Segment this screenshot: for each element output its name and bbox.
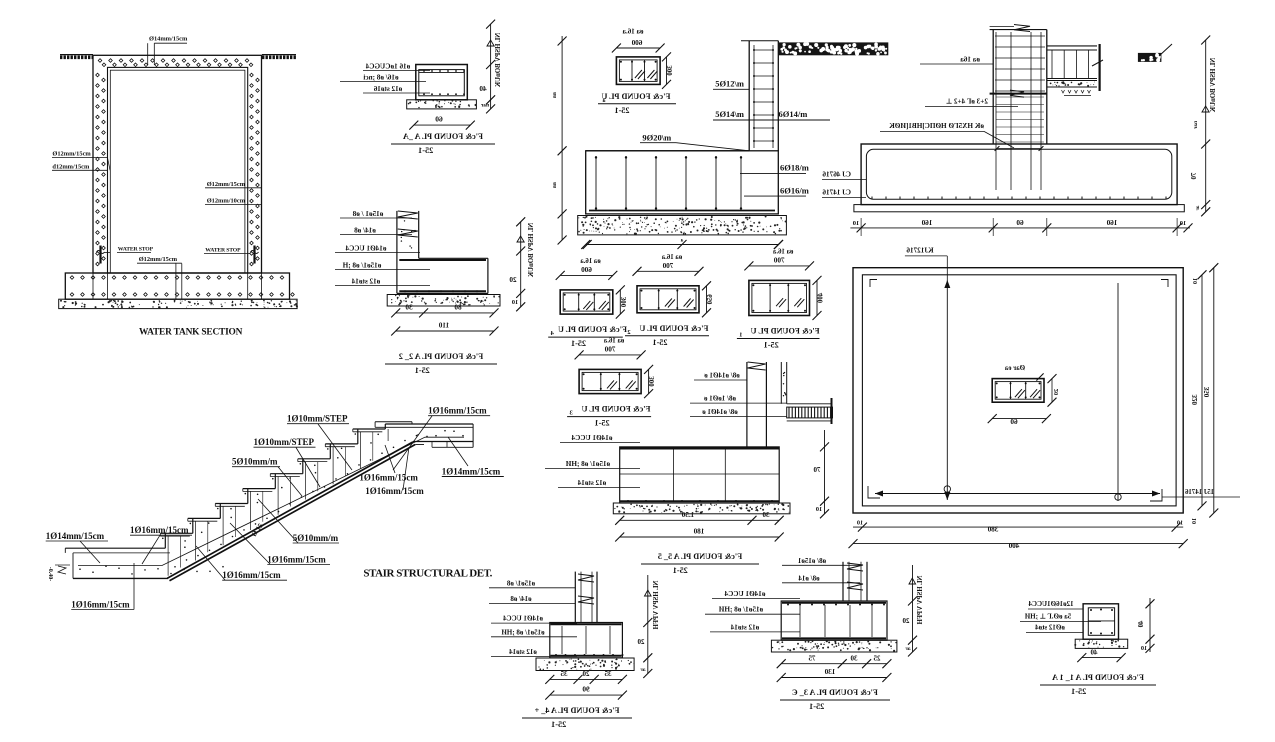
svg-text:20: 20: [637, 638, 645, 646]
svg-text:25-1: 25-1: [418, 146, 433, 155]
svg-text:1Ø16mm/15cm: 1Ø16mm/15cm: [359, 472, 418, 482]
svg-text:Ø12mm/15cm: Ø12mm/15cm: [52, 151, 91, 158]
svg-text:F'c& FOUND PL U: F'c& FOUND PL U: [639, 324, 708, 333]
svg-text:70: 70: [1190, 173, 1198, 181]
svg-text:øØ12 stø4: øØ12 stø4: [1035, 624, 1065, 632]
svg-text:ø15ø1 / ø8: ø15ø1 / ø8: [352, 210, 383, 218]
svg-text:70: 70: [813, 466, 821, 474]
svg-text:øa 16.a: øa 16.a: [580, 258, 601, 265]
svg-text:600: 600: [631, 39, 642, 47]
svg-text:ø15ø1/ ø8 ;HИ: ø15ø1/ ø8 ;HИ: [501, 628, 545, 636]
svg-text:30: 30: [850, 654, 858, 662]
svg-text:380: 380: [987, 526, 998, 534]
svg-text:25-1: 25-1: [614, 106, 629, 115]
svg-text:10: 10: [1179, 220, 1186, 227]
svg-text:NL HSPV BOnUK: NL HSPV BOnUK: [495, 33, 502, 88]
svg-text:a: a: [680, 238, 683, 244]
svg-text:12ø16Ø1UCC4: 12ø16Ø1UCC4: [1028, 600, 1074, 608]
svg-text:WATER TANK SECTION: WATER TANK SECTION: [139, 328, 243, 338]
svg-text:25-1: 25-1: [673, 566, 688, 575]
svg-text:110: 110: [438, 322, 449, 330]
svg-text:20: 20: [509, 276, 517, 284]
svg-text:ar: ar: [905, 646, 911, 652]
svg-text:NL HSPV BOnUK: NL HSPV BOnUK: [1210, 58, 1217, 113]
svg-text:-0.40-: -0.40-: [47, 567, 53, 582]
svg-text:10: 10: [1191, 518, 1198, 524]
svg-text:WATER STOP: WATER STOP: [205, 247, 241, 253]
svg-text:25-1: 25-1: [652, 338, 667, 347]
svg-text:nar: nar: [480, 103, 489, 109]
svg-text:1: 1: [739, 332, 742, 339]
svg-text:øa 16.a: øa 16.a: [622, 28, 644, 36]
svg-text:5Ø10mm/m: 5Ø10mm/m: [232, 457, 278, 467]
svg-text:øa 16.a: øa 16.a: [661, 254, 682, 261]
svg-text:6Ø18/m: 6Ø18/m: [780, 163, 809, 173]
svg-text:F'c& FOUND PL A 3_ Є: F'c& FOUND PL A 3_ Є: [792, 688, 878, 697]
svg-text:ø12 stø14: ø12 stø14: [730, 623, 759, 631]
svg-text:F'c& FOUND PL U: F'c& FOUND PL U: [751, 327, 820, 336]
svg-text:NL HSPV VPFH: NL HSPV VPFH: [917, 576, 924, 626]
svg-text:STAIR STRUCTURAL DET.: STAIR STRUCTURAL DET.: [363, 567, 492, 579]
svg-text:10: 10: [857, 520, 863, 527]
svg-text:2: 2: [627, 329, 630, 336]
svg-text:ø15ø1/ ø8 ;H: ø15ø1/ ø8 ;H: [342, 262, 381, 270]
svg-text:1Ø16mm/15cm: 1Ø16mm/15cm: [130, 525, 189, 535]
svg-text:NL HSPV VPFH: NL HSPV VPFH: [653, 581, 660, 631]
svg-text:60: 60: [1010, 418, 1018, 426]
svg-text:F'c& FOUND PL U: F'c& FOUND PL U: [601, 92, 670, 101]
svg-text:180: 180: [693, 528, 704, 536]
svg-text:ø8/ ø14Ø1 ø: ø8/ ø14Ø1 ø: [704, 372, 740, 380]
svg-text:Ø12mm/15cm: Ø12mm/15cm: [207, 181, 246, 188]
svg-text:ø12 stø14: ø12 stø14: [509, 648, 537, 656]
svg-text:ar: ar: [640, 667, 646, 673]
svg-text:10: 10: [1192, 278, 1199, 284]
svg-text:5a øØ.Γ ⊥ ;HИ: 5a øØ.Γ ⊥ ;HИ: [1024, 613, 1071, 621]
svg-text:75: 75: [808, 654, 816, 662]
svg-text:ø14/ ø8: ø14/ ø8: [510, 595, 532, 603]
svg-text:160: 160: [921, 219, 932, 227]
svg-text:nar: nar: [1193, 121, 1199, 130]
svg-text:ø12 stø16: ø12 stø16: [373, 85, 402, 93]
svg-text:aa: aa: [552, 92, 558, 98]
svg-text:F'c& FOUND PL A 5_ 5: F'c& FOUND PL A 5_ 5: [658, 552, 742, 561]
svg-text:1Ø10mm/STEP: 1Ø10mm/STEP: [254, 437, 315, 447]
svg-text:650: 650: [707, 294, 714, 305]
svg-text:ø16 1øCUGC4: ø16 1øCUGC4: [365, 63, 410, 71]
svg-text:F'c& FOUND PL A _A: F'c& FOUND PL A _A: [403, 132, 483, 141]
svg-text:CJ 46716: CJ 46716: [822, 171, 851, 179]
svg-text:60: 60: [435, 115, 443, 124]
svg-text:Ø14mm/15cm: Ø14mm/15cm: [149, 36, 188, 43]
svg-text:10: 10: [1177, 520, 1183, 527]
svg-text:6Ø14/m: 6Ø14/m: [779, 109, 808, 119]
svg-text:2+3 øΓ 4+2 ⊥: 2+3 øΓ 4+2 ⊥: [946, 98, 988, 106]
svg-text:ø16/ ø8 ;nci: ø16/ ø8 ;nci: [363, 74, 398, 82]
svg-text:6Ø16/m: 6Ø16/m: [780, 185, 809, 195]
svg-text:300: 300: [667, 65, 674, 76]
svg-text:1Ø16mm/15cm: 1Ø16mm/15cm: [267, 555, 326, 565]
svg-text:1Ø14mm/15cm: 1Ø14mm/15cm: [46, 531, 105, 541]
svg-text:10: 10: [512, 299, 518, 306]
svg-text:80: 80: [454, 304, 462, 312]
svg-text:ø8/ ø14: ø8/ ø14: [798, 574, 820, 582]
svg-text:20: 20: [902, 617, 910, 625]
svg-text:Øar ea: Øar ea: [1004, 364, 1025, 372]
svg-text:aa: aa: [552, 182, 558, 188]
svg-text:600: 600: [581, 266, 592, 274]
svg-text:25-1: 25-1: [595, 419, 610, 428]
svg-text:5Ø14\m: 5Ø14\m: [715, 109, 744, 119]
svg-text:1Ø10mm/STEP: 1Ø10mm/STEP: [287, 414, 348, 424]
svg-text:700: 700: [662, 262, 673, 270]
svg-text:10: 10: [816, 506, 822, 513]
svg-text:30: 30: [405, 304, 413, 312]
svg-text:F'c& FOUND PL A 2_ 2: F'c& FOUND PL A 2_ 2: [399, 352, 483, 361]
svg-text:ø12 stø14: ø12 stø14: [577, 479, 606, 487]
svg-text:400: 400: [1008, 542, 1019, 550]
svg-text:25-1: 25-1: [1071, 687, 1086, 696]
svg-text:700: 700: [604, 345, 615, 353]
svg-text:ø14Ø1 UCC4: ø14Ø1 UCC4: [724, 590, 765, 598]
svg-text:NL HSPV BOnUK: NL HSPV BOnUK: [528, 223, 535, 278]
svg-text:9Ø20\m: 9Ø20\m: [642, 133, 671, 143]
svg-text:25-1: 25-1: [551, 720, 566, 729]
svg-text:a: a: [603, 98, 606, 104]
svg-text:ar: ar: [1196, 206, 1201, 212]
svg-text:øa 16.a: øa 16.a: [603, 337, 624, 344]
svg-text:F'c& FOUND PL A 4_ +: F'c& FOUND PL A 4_ +: [534, 706, 619, 715]
svg-text:Ø12mm/15cm: Ø12mm/15cm: [139, 256, 178, 263]
svg-text:60: 60: [1016, 219, 1024, 227]
svg-text:Ø12mm/10cm: Ø12mm/10cm: [207, 198, 246, 205]
svg-text:ø15ø1/ ø8 ;HИ: ø15ø1/ ø8 ;HИ: [718, 606, 763, 614]
svg-text:20: 20: [582, 670, 590, 678]
svg-text:F'c& FOUND PL A 1_ 1 A: F'c& FOUND PL A 1_ 1 A: [1052, 673, 1144, 682]
svg-text:25-1: 25-1: [415, 366, 430, 375]
svg-text:300: 300: [649, 376, 656, 387]
svg-text:øa 16a: øa 16a: [960, 56, 980, 64]
svg-text:CJ 14716: CJ 14716: [822, 189, 851, 197]
svg-text:øa 16.a: øa 16.a: [772, 248, 793, 255]
svg-text:1Ø16mm/15cm: 1Ø16mm/15cm: [222, 570, 281, 580]
svg-text:10: 10: [1141, 645, 1147, 652]
svg-text:ø14Ø1 UCC4: ø14Ø1 UCC4: [345, 245, 386, 253]
svg-text:35: 35: [604, 670, 612, 678]
svg-text:35: 35: [560, 670, 568, 678]
svg-text:1.50: 1.50: [681, 511, 694, 519]
svg-text:40: 40: [1138, 621, 1145, 628]
svg-text:160: 160: [1106, 219, 1117, 227]
svg-text:350: 350: [1203, 387, 1211, 398]
svg-text:320: 320: [1191, 395, 1199, 406]
svg-text:25-1: 25-1: [809, 702, 824, 711]
svg-text:25: 25: [873, 654, 881, 662]
svg-text:30: 30: [762, 511, 770, 519]
svg-text:ø8/ 1øØ1 ø: ø8/ 1øØ1 ø: [704, 395, 736, 403]
svg-text:40: 40: [479, 85, 487, 93]
svg-text:1Ø16mm/15cm: 1Ø16mm/15cm: [365, 486, 424, 496]
svg-text:5Ø12\m: 5Ø12\m: [715, 79, 744, 89]
svg-text:ø12 stø14: ø12 stø14: [351, 278, 380, 286]
svg-text:ø8/ ø15ø1: ø8/ ø15ø1: [797, 557, 826, 565]
svg-text:10: 10: [852, 220, 859, 227]
svg-text:130: 130: [824, 668, 835, 676]
svg-text:5Ø10mm/m: 5Ø10mm/m: [293, 533, 339, 543]
svg-text:1Ø16mm/15cm: 1Ø16mm/15cm: [71, 600, 130, 610]
svg-text:F'c& FOUND PL U: F'c& FOUND PL U: [582, 405, 651, 414]
svg-text:ø8/ ø14Ø1 ø: ø8/ ø14Ø1 ø: [702, 408, 738, 416]
svg-text:ø15ø1/ ø8 ;HИ: ø15ø1/ ø8 ;HИ: [565, 460, 610, 468]
svg-text:25-1: 25-1: [764, 341, 779, 350]
svg-text:25-1: 25-1: [571, 339, 586, 348]
svg-text:KJ12716: KJ12716: [906, 247, 934, 255]
svg-text:ø14Ø1 UCC4: ø14Ø1 UCC4: [503, 615, 543, 623]
svg-text:700: 700: [773, 256, 784, 264]
svg-text:1Ø14mm/15cm: 1Ø14mm/15cm: [442, 466, 501, 476]
svg-text:ø14Ø1 UCC4: ø14Ø1 UCC4: [571, 434, 612, 442]
svg-text:WATER STOP: WATER STOP: [118, 246, 154, 252]
svg-text:40: 40: [1090, 649, 1098, 657]
svg-text:F'c& FOUND PL U: F'c& FOUND PL U: [558, 325, 627, 334]
svg-text:d12mm/15cm: d12mm/15cm: [52, 163, 90, 170]
svg-text:ø14/ ø8: ø14/ ø8: [354, 227, 376, 235]
svg-text:øK HX5ΓØ HØΠC]HB1[ИØK: øK HX5ΓØ HØΠC]HB1[ИØK: [889, 122, 984, 130]
svg-text:ø15ø1/ ø8: ø15ø1/ ø8: [506, 579, 535, 587]
svg-text:15J 14716: 15J 14716: [1185, 489, 1214, 496]
svg-text:20: 20: [1053, 389, 1060, 396]
svg-text:300: 300: [621, 297, 628, 308]
svg-text:1Ø16mm/15cm: 1Ø16mm/15cm: [428, 406, 487, 416]
svg-text:90: 90: [582, 686, 590, 694]
svg-text:400: 400: [818, 293, 825, 304]
